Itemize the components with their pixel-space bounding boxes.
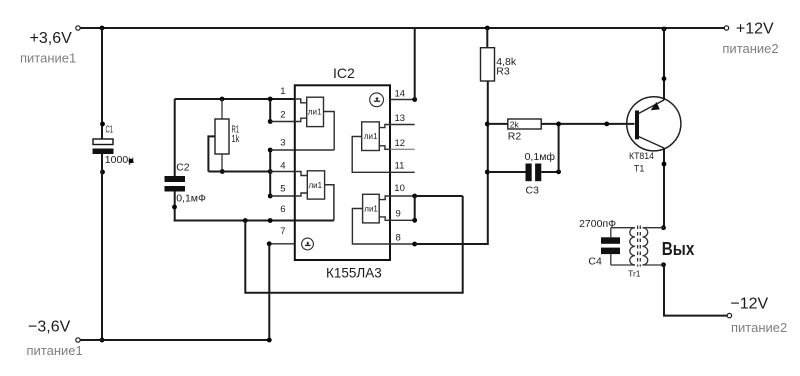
svg-text:2k: 2k: [510, 120, 520, 130]
wire pin6 net horizontal: [174, 220, 334, 222]
svg-text:1k: 1k: [232, 133, 240, 145]
label 1000µ: [105, 154, 134, 166]
svg-text:C4: C4: [588, 255, 602, 267]
junction pin3: [268, 148, 273, 153]
junction R1 top: [220, 97, 225, 102]
power symbol pin7: [302, 238, 314, 250]
svg-text:питание2: питание2: [722, 41, 778, 56]
svg-text:Вых: Вых: [662, 239, 695, 259]
gate U1.1: [295, 97, 334, 150]
wire pin8 to R3 node: [415, 81, 488, 244]
svg-text:13: 13: [395, 113, 406, 124]
svg-text:11: 11: [395, 161, 405, 172]
terminal +12V: [724, 26, 728, 30]
wire R1 bottom to pin4: [208, 171, 270, 173]
terminal -3,6V: [76, 338, 80, 342]
wire C2 lower lead: [174, 192, 176, 222]
wire pin2 stub: [270, 121, 295, 123]
svg-text:2700пФ: 2700пФ: [579, 218, 616, 230]
wire pin8 stub: [390, 243, 415, 245]
wire pin10 to loop: [415, 195, 463, 197]
junction pin1: [268, 97, 273, 102]
capacitor C4: [601, 228, 620, 265]
transistor T1: [627, 97, 681, 151]
svg-text:ли1: ли1: [308, 108, 322, 117]
gate U1.3: [352, 122, 390, 172]
junction pin6 stub: [268, 218, 273, 223]
svg-text:0,1мф: 0,1мф: [525, 151, 556, 163]
svg-text:ли1: ли1: [364, 205, 378, 214]
capacitor C3: [487, 164, 558, 182]
wire pin4 stub: [270, 171, 295, 173]
wire collector down: [663, 148, 665, 228]
pin labels left: [280, 86, 285, 237]
junction pin4 bus: [268, 169, 273, 174]
capacitor C1: [93, 139, 114, 154]
svg-text:−3,6V: −3,6V: [28, 319, 71, 336]
wire pin10 stub: [390, 195, 415, 197]
junction transformer top: [661, 225, 666, 230]
svg-text:Tr1: Tr1: [628, 269, 641, 279]
svg-text:5: 5: [280, 184, 285, 195]
junction pin2: [268, 119, 273, 124]
junction pin6 loop: [243, 218, 248, 223]
junction pin10: [412, 194, 417, 199]
svg-text:C1: C1: [106, 124, 114, 136]
wire pin14 to rail: [414, 28, 416, 100]
svg-text:R2: R2: [508, 131, 522, 143]
junction pin7 rail: [267, 338, 272, 343]
wire pin11 stub: [390, 171, 415, 173]
resistor R1: [208, 99, 229, 172]
terminal +3,6V: [76, 26, 80, 30]
transformer Tr1: [611, 226, 664, 267]
svg-text:питание1: питание1: [20, 51, 76, 66]
junction base net: [556, 122, 561, 127]
svg-text:12: 12: [395, 138, 406, 149]
junction C1 rail: [100, 26, 105, 31]
wire bus pins 9-10: [414, 196, 416, 220]
IC2 box: [295, 85, 390, 260]
svg-text:C3: C3: [526, 185, 540, 197]
junction R1 bottom: [220, 169, 225, 174]
svg-text:0,1мФ: 0,1мФ: [176, 193, 206, 205]
junction R3 rail: [485, 26, 490, 31]
junction pin14: [412, 97, 417, 102]
junction emitter rail: [662, 27, 667, 32]
gate U1.2: [295, 171, 334, 221]
wire top power rail: [78, 27, 726, 29]
svg-text:14: 14: [395, 89, 406, 100]
wire pin9 stub: [390, 219, 415, 221]
svg-text:9: 9: [396, 209, 401, 220]
wire pin14 stub: [390, 99, 415, 101]
gate U1.4: [352, 194, 390, 244]
svg-text:1: 1: [280, 86, 285, 97]
wire emitter: [663, 28, 665, 100]
wire C1 lower lead: [101, 154, 103, 340]
junction pin5: [268, 194, 273, 199]
junction transformer bottom: [661, 262, 666, 267]
svg-text:ли1: ли1: [309, 181, 323, 190]
terminal -12V: [727, 313, 731, 317]
svg-text:Т1: Т1: [634, 164, 645, 174]
junction pin8: [412, 242, 417, 247]
svg-text:ли1: ли1: [364, 132, 378, 141]
svg-text:+12V: +12V: [736, 21, 774, 38]
svg-text:7: 7: [280, 226, 285, 237]
wire feedback loop pin6 to pins 9-10: [245, 196, 462, 293]
junction C3 right corner: [556, 169, 561, 174]
resistor R3: [481, 28, 495, 81]
junction bottom rail C1: [100, 338, 105, 343]
svg-text:питание2: питание2: [731, 320, 787, 335]
svg-text:4: 4: [280, 161, 285, 172]
svg-text:питание1: питание1: [27, 343, 83, 358]
wire pin13 stub: [390, 124, 415, 126]
wire pin5 stub: [270, 195, 295, 197]
svg-text:R3: R3: [496, 66, 510, 78]
svg-text:IC2: IC2: [333, 65, 355, 81]
svg-text:2: 2: [280, 110, 285, 121]
svg-text:8: 8: [396, 233, 401, 244]
svg-text:КТ814: КТ814: [629, 151, 654, 161]
wire to -12V terminal: [664, 265, 729, 316]
svg-text:+3,6V: +3,6V: [30, 30, 73, 47]
junction R2 node: [485, 122, 490, 127]
junction emitter: [662, 76, 667, 81]
junction pin9: [412, 218, 417, 223]
wire C1 upper lead: [101, 28, 103, 139]
wire pin7 stub: [269, 243, 295, 245]
wire bus pins 1-2: [269, 99, 271, 122]
junction C1 upper: [100, 122, 105, 127]
wire bottom rail -3,6V: [78, 339, 269, 341]
svg-text:10: 10: [394, 183, 405, 194]
junction pin7: [267, 241, 272, 246]
junction C3 left: [485, 170, 490, 175]
wire net pins 1-2 top: [175, 98, 295, 100]
pin labels right: [394, 89, 405, 244]
wire C2 upper lead: [174, 99, 176, 176]
junction C1 lower: [100, 170, 105, 175]
svg-text:−12V: −12V: [730, 296, 768, 313]
resistor R2: [487, 119, 634, 129]
svg-text:C2: C2: [176, 162, 190, 174]
junction collector: [662, 162, 667, 167]
wire pin12 stub: [390, 148, 415, 150]
junction base wire: [604, 122, 609, 127]
wire C3 to base net: [558, 124, 560, 172]
power symbol pin14: [370, 93, 384, 107]
wire bus pins 3-5: [269, 150, 271, 196]
wire pin7 down to rail: [268, 244, 270, 340]
svg-text:3: 3: [280, 138, 285, 149]
junction below C2: [172, 205, 177, 210]
wire pin3 line: [270, 149, 334, 151]
capacitor C2: [165, 176, 186, 192]
svg-text:6: 6: [280, 204, 285, 215]
svg-text:К155ЛА3: К155ЛА3: [326, 266, 382, 281]
